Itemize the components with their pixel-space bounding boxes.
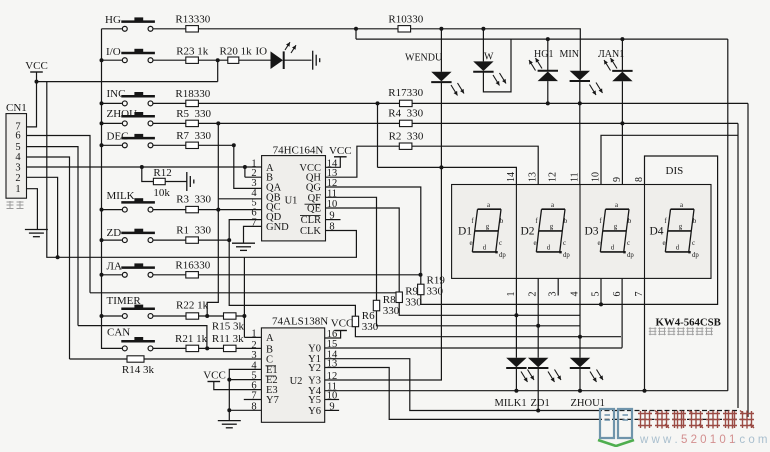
ground CN1 <box>25 229 48 231</box>
svg-text:74ALS138N: 74ALS138N <box>272 315 328 327</box>
wire W anode from top bus <box>482 29 484 62</box>
svg-text:ЛA: ЛA <box>107 261 122 273</box>
svg-text:dp: dp <box>563 252 570 259</box>
wire left common bus <box>102 29 122 349</box>
resistor R10 330 <box>398 26 411 32</box>
IC U2 74ALS138N body <box>261 328 324 422</box>
junction dots <box>35 80 39 84</box>
svg-text:MIN: MIN <box>560 49 579 60</box>
wire R9 bottom to display pin1 line <box>399 303 580 316</box>
wire INC row through R17 to right bus and Y2 return <box>153 103 748 419</box>
svg-text:R5 330: R5 330 <box>176 108 211 120</box>
svg-text:e: e <box>597 240 600 247</box>
svg-text:MILK: MILK <box>107 190 135 202</box>
resistor R5 330 <box>186 120 199 126</box>
svg-text:CAN: CAN <box>107 326 130 338</box>
svg-text:A: A <box>266 333 274 344</box>
wire U1 QF to R8 top <box>326 197 377 300</box>
svg-text:DEC: DEC <box>107 130 129 142</box>
LED WENDU <box>431 72 451 82</box>
svg-text:10: 10 <box>327 391 338 402</box>
ground for IO led <box>312 51 314 70</box>
svg-text:2: 2 <box>15 173 20 184</box>
svg-text:c: c <box>692 240 695 247</box>
wire U1 CLK long route to CN1 side <box>47 82 357 258</box>
wire INC left stub <box>102 102 122 104</box>
label zhuban (motherboard) <box>7 201 24 209</box>
wire display pin 1 down to MILK1 anode <box>515 278 517 357</box>
wire display pin 3 stub <box>557 278 559 295</box>
wire U1 CLR stub <box>326 219 341 221</box>
resistor R23 1k <box>186 57 199 63</box>
wire U2 Y0 to display pin 6 <box>325 278 622 348</box>
wire DEC left stub <box>102 144 122 146</box>
LED ZHOU1 <box>570 358 590 368</box>
svg-text:13: 13 <box>528 172 539 182</box>
wire JIA left stub <box>102 274 122 276</box>
resistor R14 3k <box>127 356 144 362</box>
svg-text:MILK1: MILK1 <box>495 398 527 409</box>
svg-text:VCC: VCC <box>203 370 226 382</box>
wire I/O left stub <box>102 59 122 61</box>
switch TIMER <box>121 305 155 319</box>
svg-text:14: 14 <box>506 172 517 182</box>
wire I/O node loop to left <box>37 60 218 81</box>
wire R19 bottom to display pin5 line to DIS loop to display pin 8 <box>421 156 718 304</box>
wire R12 branch <box>142 167 187 182</box>
resistor R3 330 <box>186 206 199 212</box>
wire right bus from top y39 down to Y4 bus <box>727 39 729 391</box>
display cell divider 1 <box>515 185 517 279</box>
svg-text:C: C <box>266 355 273 366</box>
svg-text:6: 6 <box>612 292 623 297</box>
svg-text:8: 8 <box>329 222 334 233</box>
svg-text:13: 13 <box>327 359 338 370</box>
switch INC <box>121 92 155 106</box>
svg-text:D3: D3 <box>585 226 599 238</box>
svg-text:5: 5 <box>591 292 602 297</box>
resistor R16 330 <box>186 272 199 278</box>
svg-text:Y3: Y3 <box>308 376 321 387</box>
wire ZHOU left stub <box>102 122 122 124</box>
svg-text:R15 3k: R15 3k <box>212 321 245 333</box>
svg-text:74HC164N: 74HC164N <box>273 145 324 157</box>
LED HG1 <box>538 70 558 72</box>
svg-text:R14 3k: R14 3k <box>122 364 155 376</box>
wire U2 Y6 stub <box>325 409 339 411</box>
wire HG row to R10 to MIN anode <box>153 29 580 71</box>
display cell divider 2 <box>579 185 581 279</box>
wire HG left stub <box>102 28 122 30</box>
svg-text:R10330: R10330 <box>388 14 423 26</box>
resistor R17 330 <box>400 100 413 106</box>
wire CN1 pin6 line to R9 top <box>90 292 399 294</box>
svg-text:W: W <box>484 52 494 63</box>
display digit D3 <box>585 202 635 259</box>
svg-text:e: e <box>662 240 665 247</box>
svg-text:12: 12 <box>327 371 338 382</box>
VCC symbol U2 pin16 <box>334 330 347 332</box>
resistor R21 1k <box>186 345 199 351</box>
wire R6 bottom to display pin 4 line <box>355 327 621 337</box>
svg-text:330: 330 <box>405 297 422 309</box>
svg-text:e: e <box>533 240 536 247</box>
svg-text:R21 1k: R21 1k <box>175 333 208 345</box>
wire U1 QE to R9 top <box>326 208 400 292</box>
svg-text:11: 11 <box>327 188 337 199</box>
wire MIN cathode down to display pin 11 <box>579 82 581 185</box>
svg-text:DIS: DIS <box>666 165 684 177</box>
wire display pin 7 down to Y4 bus <box>644 278 646 390</box>
resistor R2 330 <box>399 143 412 149</box>
svg-text:11: 11 <box>570 172 581 182</box>
svg-text:I/O: I/O <box>106 46 121 58</box>
LED ZD1 <box>528 358 548 368</box>
svg-text:10: 10 <box>327 199 338 210</box>
svg-text:ЛAN1: ЛAN1 <box>598 49 624 60</box>
wire R8 bottom to display pin2 line <box>377 311 581 326</box>
svg-text:QE: QE <box>307 204 321 215</box>
switch I/O <box>121 49 155 63</box>
svg-text:R12: R12 <box>153 167 171 179</box>
svg-text:b: b <box>500 218 504 225</box>
switch ZHOU <box>121 112 155 126</box>
svg-text:ZD1: ZD1 <box>531 398 550 409</box>
resistor R7 330 <box>186 142 199 148</box>
svg-text:7: 7 <box>251 391 256 402</box>
svg-text:10k: 10k <box>153 187 170 199</box>
svg-text:b: b <box>628 218 632 225</box>
svg-text:R20 1k: R20 1k <box>220 46 253 58</box>
svg-text:D2: D2 <box>521 226 535 238</box>
switch DEC <box>121 134 155 148</box>
wire ZD row <box>153 239 229 241</box>
svg-text:3: 3 <box>251 350 256 361</box>
svg-text:VCC: VCC <box>331 318 354 330</box>
svg-text:9: 9 <box>329 211 334 222</box>
LED MILK1 <box>506 358 526 368</box>
switch CAN <box>121 337 155 351</box>
display DIS module body <box>452 185 711 279</box>
wire JIAN1 anode stub <box>621 39 623 71</box>
display digit D4 <box>650 202 700 259</box>
svg-text:1: 1 <box>15 184 20 195</box>
svg-text:8: 8 <box>634 177 645 182</box>
svg-text:330: 330 <box>383 305 400 317</box>
VCC symbol U1 pin14 <box>334 156 347 158</box>
svg-text:Y5: Y5 <box>308 395 321 406</box>
IC U1 74HC164N body <box>262 156 326 241</box>
wire ZHOU-MILK-TIMER common vertical <box>207 123 261 316</box>
svg-text:w w w .: w w w . <box>639 434 678 446</box>
svg-text:6: 6 <box>15 130 20 141</box>
svg-text:7: 7 <box>634 292 645 297</box>
wire ZD1 cathode down to Y1 bus <box>537 368 539 411</box>
wire U2 E1 E2 gnd chain <box>229 369 261 420</box>
display digit D1 <box>458 202 506 259</box>
wire ZHOU row through R4 to right bus, down, Y1 return <box>153 123 738 410</box>
svg-text:330: 330 <box>427 286 444 298</box>
wire U1 GND pin to ground <box>244 226 262 243</box>
svg-text:dp: dp <box>499 252 506 259</box>
wire CN1 pin 1 to ground <box>27 189 38 230</box>
svg-text:U2: U2 <box>290 376 303 387</box>
switch HG <box>121 17 155 31</box>
svg-text:9: 9 <box>612 177 623 182</box>
svg-text:R22 1k: R22 1k <box>176 299 209 311</box>
svg-text:a: a <box>615 202 618 209</box>
svg-text:VCC: VCC <box>25 60 48 72</box>
svg-text:5 2 0 1 0 1: 5 2 0 1 0 1 <box>681 434 735 446</box>
wire CN1 pin 2 exit to CLK line <box>27 177 58 257</box>
wire display pin 2 down to ZD1 anode <box>537 278 539 357</box>
svg-text:g: g <box>550 224 554 231</box>
wire HG1 cathode to row y103 <box>547 81 549 103</box>
wire TIMER row to R15 <box>153 315 244 317</box>
svg-text:R2 330: R2 330 <box>389 131 424 143</box>
VCC symbol main left <box>30 71 43 73</box>
LED W <box>473 61 493 71</box>
svg-text:D4: D4 <box>650 226 664 238</box>
LED IO <box>271 51 284 69</box>
svg-text:HG1: HG1 <box>534 49 553 60</box>
wire U2 E3 to VCC <box>214 382 262 390</box>
wire node R17 branch down to pin14 line <box>377 103 379 167</box>
svg-text:b: b <box>564 218 568 225</box>
resistor R19 330 <box>418 284 424 295</box>
svg-text:a: a <box>487 202 490 209</box>
watermark book icon <box>600 409 632 438</box>
resistor R20 1k <box>228 57 239 63</box>
svg-text:d: d <box>547 244 551 251</box>
svg-text:330: 330 <box>362 321 379 333</box>
wire W-cathode top bus y39 <box>356 29 728 39</box>
wire MILK row to U1 pin 5 <box>153 209 261 211</box>
svg-text:7: 7 <box>251 217 256 228</box>
wire U2 Y4 bus <box>325 390 728 392</box>
display digit D2 <box>521 202 571 259</box>
wire VCC feed down to CN1 pin 7 <box>27 82 37 127</box>
U2 E2 overline <box>266 375 277 377</box>
resistor R9 330 <box>396 292 402 303</box>
resistor R22 1k <box>186 313 199 319</box>
svg-text:a: a <box>551 202 554 209</box>
connector CN1 body <box>6 114 27 199</box>
wire I/O row to IO led <box>153 59 311 61</box>
wire CN1 pin 5 exit to CAN node <box>27 147 207 349</box>
U1 QE overline <box>305 203 321 205</box>
svg-text:c: c <box>627 240 630 247</box>
wire W cathode return loop <box>483 39 511 92</box>
wire CAN row to U2 pin B <box>153 347 261 349</box>
wire CN1 pin 4 exit to R14 row <box>27 157 70 359</box>
wire display pin 5 stub <box>600 278 602 304</box>
wire R14 row to U2 pin C <box>70 358 262 360</box>
svg-text:2: 2 <box>528 292 539 297</box>
resistor R1 330 <box>186 237 199 243</box>
VCC symbol U2 E3 <box>208 381 221 383</box>
svg-text:8: 8 <box>251 401 256 412</box>
label siwei gongyin shumaguan <box>649 327 713 335</box>
switch MILK <box>121 198 155 212</box>
svg-text:Y2: Y2 <box>308 363 321 374</box>
svg-text:R23 1k: R23 1k <box>176 46 209 58</box>
svg-text:1: 1 <box>251 328 256 339</box>
svg-text:INC: INC <box>107 88 126 100</box>
ground R12 <box>186 172 188 191</box>
svg-text:HG: HG <box>105 14 121 26</box>
svg-text:c: c <box>563 240 566 247</box>
svg-text:Y0: Y0 <box>308 344 321 355</box>
svg-text:U1: U1 <box>285 195 298 206</box>
svg-text:CN1: CN1 <box>6 102 27 114</box>
svg-text:R17330: R17330 <box>388 87 423 99</box>
svg-text:dp: dp <box>627 252 634 259</box>
switch ZD <box>121 229 155 243</box>
svg-text:d: d <box>611 244 615 251</box>
svg-text:QF: QF <box>308 193 322 204</box>
wire U2 pin16 to VCC symbol <box>325 331 341 339</box>
resistor R6 330 <box>352 316 358 327</box>
wire JIA row to R19 node <box>153 274 420 276</box>
ground U2 <box>218 420 241 422</box>
svg-text:R18330: R18330 <box>175 88 210 100</box>
svg-text:R16330: R16330 <box>175 259 210 271</box>
svg-text:R3 330: R3 330 <box>176 194 211 206</box>
resistor R18 330 <box>186 100 199 106</box>
wire display pin14 feed line <box>378 167 517 184</box>
ground U1 GND <box>232 242 255 244</box>
svg-text:g: g <box>679 224 683 231</box>
wire TIMER left stub <box>102 315 122 317</box>
svg-text:R1 330: R1 330 <box>176 225 211 237</box>
resistor R8 330 <box>373 300 379 311</box>
svg-text:d: d <box>483 244 487 251</box>
wire U1 QH to R2 row to display pin13 <box>326 146 539 184</box>
svg-text:D1: D1 <box>458 226 472 238</box>
svg-text:g: g <box>486 224 490 231</box>
svg-text:VCC: VCC <box>329 145 352 157</box>
svg-text:GND: GND <box>266 222 289 233</box>
svg-text:R4 330: R4 330 <box>388 108 423 120</box>
wire CN1 pin 6 exit <box>27 136 91 293</box>
wire U1 QG to R19 top <box>326 187 421 284</box>
U1 CLR overline <box>300 215 321 217</box>
svg-text:TIMER: TIMER <box>107 295 142 307</box>
wire ZHOU1 cathode <box>579 368 581 391</box>
svg-text:Y7: Y7 <box>266 395 279 406</box>
wire WENDU anode from top bus <box>440 29 442 72</box>
LED MIN <box>570 71 590 81</box>
svg-text:10: 10 <box>591 172 602 182</box>
resistor R12 10k <box>153 178 165 184</box>
svg-text:Y6: Y6 <box>308 406 321 417</box>
svg-text:1: 1 <box>506 292 517 297</box>
svg-text:KW4-564CSB: KW4-564CSB <box>656 317 721 329</box>
svg-text:b: b <box>693 218 697 225</box>
watermark jiadian weixiu ziliao wang text <box>638 411 754 429</box>
svg-text:15: 15 <box>327 339 338 350</box>
switch JIA <box>121 263 155 277</box>
wire JIAN1 cathode down to display pin 9 <box>621 81 623 184</box>
svg-text:3: 3 <box>548 292 559 297</box>
wire U2 Y7 stub <box>244 399 262 401</box>
wire U1 VCC pin to symbol <box>326 157 341 168</box>
svg-text:d: d <box>676 244 680 251</box>
wire U2 Y5 stub <box>325 399 339 401</box>
wire display pin 4 down to ZHOU1 anode <box>579 278 581 357</box>
resistor R11 3k <box>224 345 237 351</box>
wire DEC row to U1 pin 3 <box>153 145 261 188</box>
svg-text:a: a <box>680 202 683 209</box>
display cell divider 3 <box>644 185 646 279</box>
svg-text:9: 9 <box>329 401 334 412</box>
svg-text:R13330: R13330 <box>175 14 210 26</box>
wire HG1 anode stub <box>547 39 549 71</box>
svg-text:g: g <box>614 224 618 231</box>
svg-text:3: 3 <box>15 162 20 173</box>
svg-text:R7 330: R7 330 <box>176 130 211 142</box>
wire ZD left stub <box>102 239 122 241</box>
wire display pin10 feed line <box>601 135 738 184</box>
resistor R15 3k <box>224 313 237 319</box>
svg-text:4: 4 <box>570 292 581 297</box>
svg-text:c: c <box>499 240 502 247</box>
svg-text:WENDU: WENDU <box>405 53 443 64</box>
svg-text:e: e <box>469 240 472 247</box>
wire U1 QD to ZD row to R6 top <box>229 220 355 317</box>
wire CN1 pin 3 long line to U1 A/B <box>27 167 262 177</box>
wire CLK branch down to U2 pin 1 <box>244 257 261 337</box>
wire MILK1 cathode <box>515 368 517 391</box>
LED JIAN1 <box>612 70 632 72</box>
resistor R4 330 <box>400 120 413 126</box>
svg-text:CLR: CLR <box>301 215 321 226</box>
svg-text:R11 3k: R11 3k <box>212 333 244 345</box>
svg-text:CLK: CLK <box>300 226 321 237</box>
wire WENDU cathode down to pin14 branch and Y3 bus <box>325 82 442 380</box>
svg-text:ZHOU1: ZHOU1 <box>571 398 605 409</box>
svg-text:12: 12 <box>548 172 559 182</box>
svg-text:ZHOU: ZHOU <box>107 108 138 120</box>
wire MILK left stub <box>102 209 122 211</box>
svg-text:IO: IO <box>256 46 268 58</box>
svg-text:ZD: ZD <box>107 227 122 239</box>
U2 E1 overline <box>266 365 277 367</box>
svg-text:. c o m: . c o m <box>733 434 768 446</box>
svg-text:dp: dp <box>692 252 699 259</box>
resistor R13 330 <box>186 26 199 32</box>
